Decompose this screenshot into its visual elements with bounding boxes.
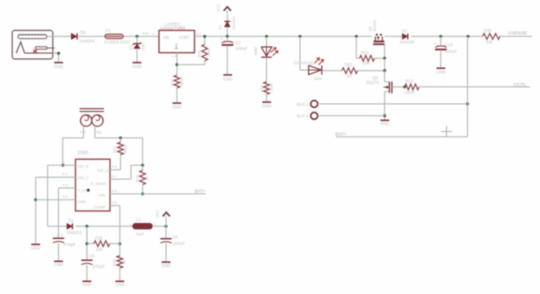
svg-text:R25: R25 xyxy=(95,235,103,240)
resistor R25 10k xyxy=(94,235,110,251)
svg-text:L-3: L-3 xyxy=(172,55,177,59)
diode D5 1N4004 xyxy=(71,30,95,43)
junction feedback node xyxy=(85,242,88,245)
wire BAT+ riser xyxy=(467,36,469,136)
svg-text:P-2: P-2 xyxy=(63,172,68,176)
zener diode D2 xyxy=(129,36,146,61)
wire D3 to L1 xyxy=(75,225,132,227)
pad BAT-2 xyxy=(297,112,318,119)
resistor R19 10K xyxy=(360,50,385,65)
svg-text:Q5: Q5 xyxy=(369,26,373,31)
svg-text:1N4004: 1N4004 xyxy=(232,16,236,29)
pin numbers SW5 right xyxy=(112,165,117,205)
svg-text:D1: D1 xyxy=(68,218,74,223)
wire charge branch down xyxy=(300,36,308,70)
wire R22 to gate node xyxy=(358,70,385,72)
junction rail VCC node xyxy=(226,35,229,38)
svg-text:P-5: P-5 xyxy=(112,201,117,205)
junction gate R19 xyxy=(383,57,386,60)
svg-text:GND: GND xyxy=(380,121,389,126)
svg-text:GND: GND xyxy=(132,64,141,69)
resistor R22 1K xyxy=(342,62,358,78)
capacitor C13 100uF xyxy=(434,36,458,67)
junction rail C13 xyxy=(439,35,442,38)
svg-text:D1: D1 xyxy=(218,25,222,30)
supply symbol VCC bottom xyxy=(155,210,170,226)
junction rail charge branch xyxy=(299,35,302,38)
svg-text:VO$T: VO$T xyxy=(179,35,190,40)
svg-text:VIN: VIN xyxy=(98,193,105,198)
svg-text:R22: R22 xyxy=(345,62,353,67)
svg-text:BAT-2: BAT-2 xyxy=(297,114,309,119)
junction VIN node xyxy=(141,192,144,195)
wire D5 to F1 xyxy=(78,35,105,37)
svg-text:BAT-1: BAT-1 xyxy=(297,102,309,107)
supply symbol VCC xyxy=(215,4,231,21)
svg-text:P-3: P-3 xyxy=(63,183,68,187)
switching regulator IC SW5 MC34063 xyxy=(76,151,111,211)
svg-text:GND: GND xyxy=(115,282,124,287)
svg-text:C13: C13 xyxy=(445,42,453,47)
wire SW_E pin xyxy=(63,164,76,166)
resistor R33 330R xyxy=(260,82,273,101)
resistor R31 100R xyxy=(197,44,211,60)
wire D7 to R30 xyxy=(411,35,483,37)
diode D3 1N5819 xyxy=(67,218,82,235)
svg-text:BAT+: BAT+ xyxy=(335,131,347,136)
wire BAT-1 to BAT+ riser xyxy=(318,103,468,105)
wire SW_C pin xyxy=(36,177,76,243)
resistor R13 220R xyxy=(405,79,419,95)
wire rail to R19 xyxy=(356,36,359,58)
svg-text:P-7: P-7 xyxy=(112,175,117,179)
svg-text:VSENSE: VSENSE xyxy=(508,30,527,36)
svg-text:1N5819: 1N5819 xyxy=(67,230,82,235)
svg-text:P-8: P-8 xyxy=(112,165,117,169)
svg-text:+: + xyxy=(220,36,223,41)
svg-text:SW_C: SW_C xyxy=(77,175,89,180)
inductor L1 xyxy=(129,217,155,237)
svg-text:220R: 220R xyxy=(405,90,415,95)
svg-text:GND: GND xyxy=(54,64,63,69)
junction T1 R27 xyxy=(119,136,122,139)
ground C6 xyxy=(161,262,170,268)
junction GND pin xyxy=(34,198,37,201)
capacitor C5 470pF xyxy=(53,232,76,260)
plus mark xyxy=(441,126,452,137)
ground R24 xyxy=(115,281,124,287)
transistor Q8 BS170 xyxy=(367,75,392,93)
junction rail LED1 xyxy=(265,35,268,38)
diode D7 1N4148 xyxy=(400,29,415,45)
resistor R24 1K xyxy=(113,244,127,281)
junction gate R13 xyxy=(403,85,406,88)
ground zener xyxy=(132,63,141,69)
ground C5 xyxy=(54,261,63,267)
svg-text:R21: R21 xyxy=(361,50,369,55)
svg-text:5V6: 5V6 xyxy=(142,43,146,50)
wire A_SENS pin xyxy=(110,165,143,179)
junction BAT-2 node xyxy=(383,114,386,117)
wire Q5 to D7 xyxy=(385,35,402,37)
wire output node down xyxy=(86,226,88,259)
svg-text:470pF: 470pF xyxy=(63,242,76,247)
net label BAT+ left xyxy=(143,188,207,194)
junction output node xyxy=(85,225,88,228)
svg-text:1R: 1R xyxy=(145,176,149,181)
svg-text:10k: 10k xyxy=(486,39,494,44)
svg-text:VCC: VCC xyxy=(155,210,160,218)
wire gate node to Q8 drain xyxy=(385,71,389,83)
ground R33 xyxy=(262,102,271,108)
wire R32 to ground xyxy=(176,88,178,102)
wire COMP pin xyxy=(110,206,120,244)
svg-text:FUSE6.3X32: FUSE6.3X32 xyxy=(105,40,131,45)
svg-text:T-4: T-4 xyxy=(63,195,68,199)
capacitor C8 470uF xyxy=(81,254,105,281)
svg-text:R24: R24 xyxy=(113,259,117,266)
ground C7 xyxy=(223,75,232,81)
svg-text:3MM: 3MM xyxy=(313,77,321,81)
wire to R18 column xyxy=(142,138,144,165)
ground C8 xyxy=(82,281,91,287)
wire adj pin down xyxy=(176,53,178,76)
svg-text:GND: GND xyxy=(172,105,181,110)
transformer T1 core xyxy=(80,109,104,112)
net label CCTL xyxy=(419,82,530,88)
svg-text:100uF: 100uF xyxy=(173,241,186,246)
svg-text:R18: R18 xyxy=(136,175,140,182)
wire L1 to VCC node xyxy=(152,225,166,227)
transistor Q5 BS250 xyxy=(369,20,385,59)
wire F1 to regulator xyxy=(123,35,159,37)
net label BAT+ right xyxy=(335,131,467,136)
junction rail R31 xyxy=(203,35,206,38)
svg-text:10K: 10K xyxy=(363,61,371,66)
svg-text:GND: GND xyxy=(436,70,445,75)
svg-text:T_CA: T_CA xyxy=(77,188,88,193)
svg-text:4-2: 4-2 xyxy=(196,32,201,36)
ground R32 xyxy=(172,103,181,109)
svg-text:1N4004: 1N4004 xyxy=(79,39,95,44)
junction BAT+ riser xyxy=(466,102,469,105)
svg-text:C7: C7 xyxy=(235,40,241,45)
svg-text:BAT+: BAT+ xyxy=(195,188,207,193)
svg-text:100uF: 100uF xyxy=(235,46,248,51)
transformer T1 windings xyxy=(80,115,103,135)
solar panel module G1 xyxy=(12,30,54,59)
wire LED2 to R20 xyxy=(322,70,342,72)
svg-text:C8: C8 xyxy=(89,254,95,259)
svg-text:2: 2 xyxy=(154,222,156,226)
svg-text:LD1117V50: LD1117V50 xyxy=(161,26,186,32)
ground Q8 xyxy=(380,120,389,126)
junction rail BAT+ xyxy=(467,35,470,38)
svg-text:330R: 330R xyxy=(269,83,273,92)
wire regulator output rail xyxy=(195,35,372,37)
svg-text:470uF: 470uF xyxy=(92,264,105,269)
svg-text:D7: D7 xyxy=(402,29,408,34)
wire Q8 source to ground xyxy=(384,92,386,120)
svg-text:R31: R31 xyxy=(197,50,201,57)
wire T1 left pin xyxy=(63,126,84,165)
ground C13 xyxy=(436,68,445,74)
svg-text:P$2: P$2 xyxy=(96,131,102,135)
junction VCC node bottom xyxy=(165,225,168,228)
wire Q8 gate to R13 xyxy=(392,86,405,88)
svg-text:VCC: VCC xyxy=(215,4,220,12)
wire GND pin xyxy=(36,199,76,201)
svg-text:C6: C6 xyxy=(172,234,178,239)
wire R25 to junction xyxy=(110,243,120,245)
svg-text:3MM: 3MM xyxy=(254,47,258,55)
pad BAT-1 xyxy=(297,101,318,108)
resistor R27 0R22 xyxy=(113,138,127,155)
svg-text:D2: D2 xyxy=(129,45,133,50)
wire feedback to R25 xyxy=(87,243,94,245)
wire DR_C pin xyxy=(110,155,121,170)
led LED2 CHARGE xyxy=(294,58,323,81)
svg-text:100uF: 100uF xyxy=(445,49,458,54)
junction R25 R24 xyxy=(118,242,121,245)
wire SW_E branch to switch node xyxy=(48,165,63,226)
svg-text:GND: GND xyxy=(31,245,40,250)
svg-text:1K: 1K xyxy=(347,74,352,79)
svg-text:100R: 100R xyxy=(207,48,211,57)
svg-text:+: + xyxy=(434,41,437,46)
svg-text:A-B: A-B xyxy=(143,32,149,36)
wire gate node down xyxy=(384,58,386,70)
svg-text:D5: D5 xyxy=(80,30,86,35)
wire T_CAP pin xyxy=(59,188,76,238)
svg-text:R27: R27 xyxy=(113,146,117,153)
junction rail Q5 branch xyxy=(355,35,358,38)
svg-text:680R: 680R xyxy=(180,77,184,86)
svg-text:1: 1 xyxy=(152,32,154,36)
pin numbers SW5 left xyxy=(63,161,68,200)
svg-text:COMP: COMP xyxy=(93,204,105,209)
svg-text:DR_C: DR_C xyxy=(98,168,109,173)
wire switch node xyxy=(48,225,67,227)
wire T1 right pin xyxy=(95,126,143,138)
svg-text:GND: GND xyxy=(82,282,91,287)
svg-text:GND: GND xyxy=(54,262,63,267)
wire adj to R31 xyxy=(177,36,205,64)
svg-text:1: 1 xyxy=(129,222,131,226)
led LED1 power xyxy=(254,36,278,81)
voltage regulator IC1 LD1117V50 xyxy=(152,22,201,59)
svg-text:BS250: BS250 xyxy=(373,20,377,31)
junction SW_E xyxy=(61,164,64,167)
svg-text:10k: 10k xyxy=(96,247,104,252)
svg-text:0R22: 0R22 xyxy=(123,144,127,153)
svg-text:GND: GND xyxy=(262,104,271,109)
svg-text:1uH: 1uH xyxy=(136,232,144,237)
svg-text:L1: L1 xyxy=(136,217,141,222)
junction zener node xyxy=(136,35,139,38)
diode D1 1N4004 vertical xyxy=(218,16,235,36)
ground SW5 xyxy=(31,244,40,250)
svg-text:CCTL: CCTL xyxy=(514,82,527,88)
wire solar- to ground xyxy=(53,53,59,62)
svg-text:1N4148: 1N4148 xyxy=(400,39,415,44)
svg-text:P-P: P-P xyxy=(112,190,117,194)
svg-text:1K: 1K xyxy=(122,259,126,264)
ground solar xyxy=(54,63,63,69)
svg-text:C 5: C 5 xyxy=(57,232,64,237)
resistor R32 680R xyxy=(170,75,183,88)
fuse F1 xyxy=(105,28,131,44)
svg-text:BS170: BS170 xyxy=(367,80,380,85)
svg-text:GND: GND xyxy=(223,76,232,81)
resistor R30 10k xyxy=(483,28,501,44)
capacitor C6 100uF xyxy=(160,226,185,261)
junction solar- xyxy=(57,52,60,55)
wire VIN pin xyxy=(110,193,143,195)
wire BAT-2 to Q8 source xyxy=(318,115,385,117)
capacitor C7 100uF xyxy=(220,36,248,74)
junction gate R22 xyxy=(383,69,386,72)
svg-text:GND: GND xyxy=(77,199,86,204)
resistor R18 1R xyxy=(136,165,150,194)
net label VSENSE xyxy=(500,30,532,36)
svg-text:VI$: VI$ xyxy=(163,35,170,40)
svg-text:R32: R32 xyxy=(170,79,174,86)
svg-text:R30: R30 xyxy=(484,28,492,33)
svg-text:R13: R13 xyxy=(405,79,413,84)
svg-text:F1: F1 xyxy=(106,28,112,33)
svg-text:CHARGE: CHARGE xyxy=(294,60,314,65)
junction R18 top xyxy=(141,164,144,167)
svg-text:A_SENS: A_SENS xyxy=(91,181,107,186)
wire solar+ to D5 xyxy=(47,35,71,37)
svg-text:SW5: SW5 xyxy=(78,151,89,157)
junction adj node xyxy=(175,63,178,66)
svg-text:R33: R33 xyxy=(260,85,264,92)
svg-text:SW_E: SW_E xyxy=(77,163,89,168)
svg-text:GND: GND xyxy=(161,263,170,268)
